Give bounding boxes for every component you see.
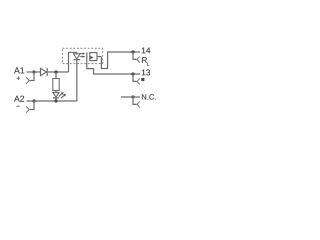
minus polarity mark — [16, 105, 19, 107]
label A2 — [14, 96, 24, 102]
optocoupler dashed box U1 — [62, 48, 102, 63]
label 13 — [142, 69, 150, 75]
terminal 14 — [131, 50, 134, 53]
terminal N.C. — [131, 95, 134, 98]
wire opto cathode to A2 rail — [76, 60, 78, 101]
wire A2 bottom rail — [27, 100, 77, 102]
node J2 — [54, 99, 57, 102]
label 14 — [142, 48, 150, 54]
wire N.C. stub — [121, 96, 140, 98]
photo-MOSFET U1 output — [86, 52, 88, 62]
wire MOSFET source to terminal 13 — [87, 62, 140, 74]
label A1 — [14, 67, 24, 73]
wire diode to node — [48, 71, 69, 73]
terminal A2 — [32, 99, 35, 102]
label R — [142, 57, 147, 63]
LED indicator — [53, 93, 59, 98]
square mark — [141, 78, 144, 81]
terminal 13 — [131, 72, 134, 75]
label R subscript — [147, 62, 149, 65]
terminal A1 — [32, 70, 35, 73]
wire MOSFET drain to terminal 14 — [101, 52, 140, 69]
opto emitter LED — [76, 52, 78, 54]
diode D1 — [41, 68, 47, 75]
resistor R1 — [55, 72, 57, 79]
wire rail to opto anode — [69, 52, 77, 72]
label N.C. — [142, 94, 156, 99]
node J1 — [54, 70, 57, 73]
plus polarity mark — [17, 76, 21, 80]
wire A1 to diode — [27, 71, 41, 73]
